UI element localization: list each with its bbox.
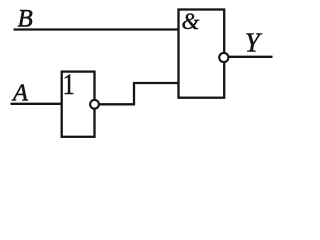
svg-text:&: &: [182, 9, 200, 34]
svg-text:A: A: [11, 80, 29, 107]
NAND gate U2 body: [179, 10, 225, 98]
svg-text:1: 1: [63, 68, 75, 100]
inverter U1 body: [62, 72, 95, 137]
wire A to inverter input: [11, 103, 63, 105]
svg-text:Y: Y: [245, 27, 263, 57]
NAND gate U2 output bubble: [219, 53, 228, 62]
wire inverter output to NAND input 2 (step): [99, 83, 179, 104]
wire NAND output to Y: [228, 56, 272, 58]
wire B to NAND input 1: [14, 28, 180, 30]
inverter U1 output bubble: [90, 100, 99, 109]
